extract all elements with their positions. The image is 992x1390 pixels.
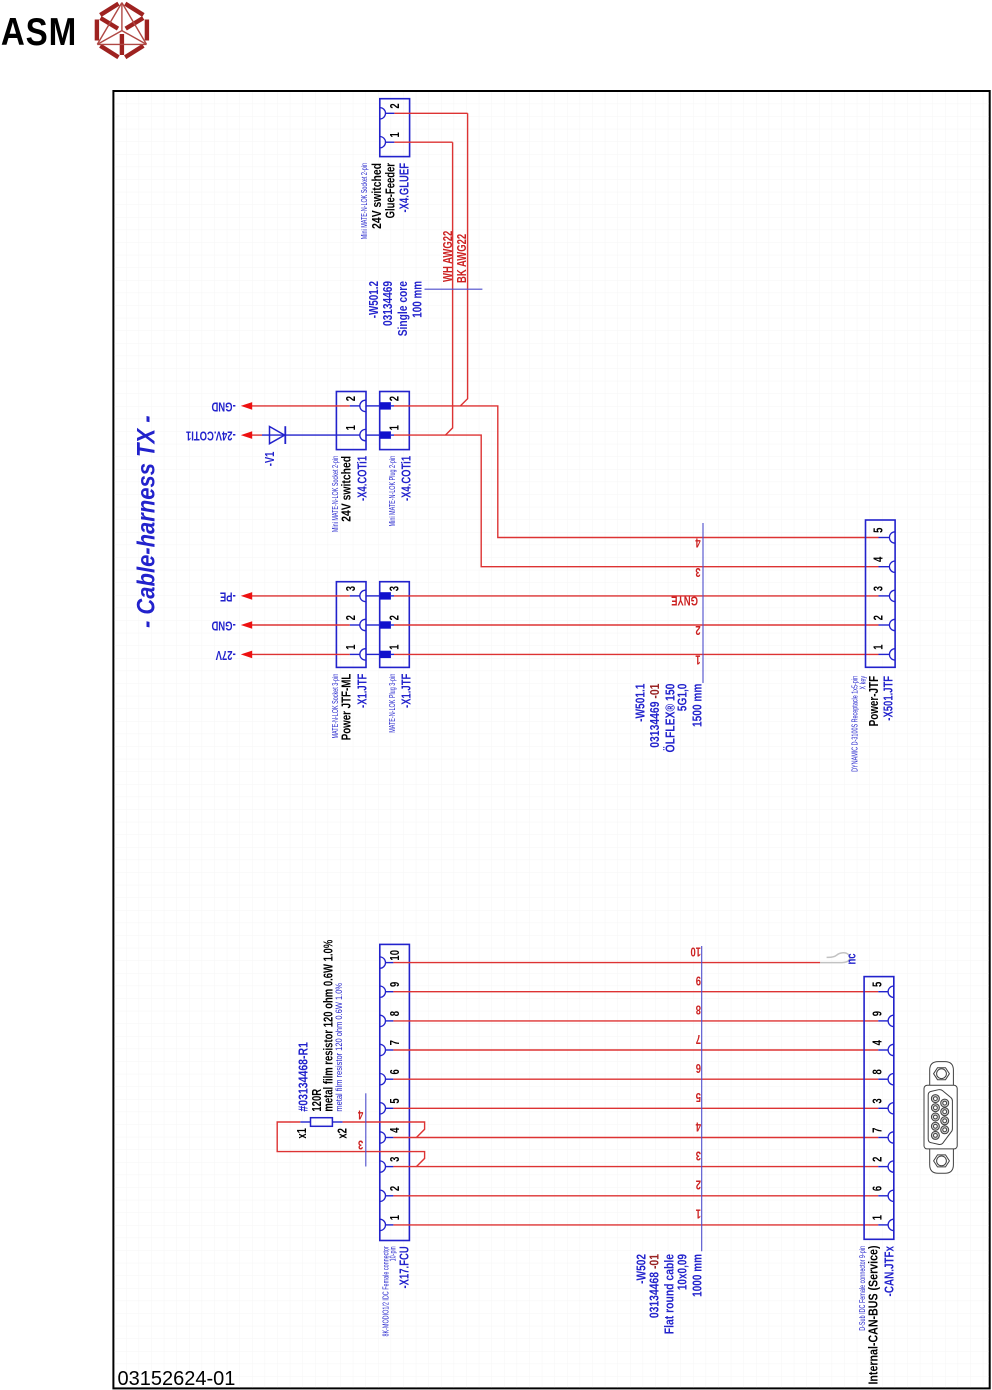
svg-text:1: 1 bbox=[345, 425, 359, 431]
X17.FCU pin 2 stub bbox=[386, 1195, 394, 1197]
link X1 socket-plug pin2 bbox=[366, 624, 381, 626]
svg-text:4: 4 bbox=[871, 1040, 885, 1046]
svg-text:3: 3 bbox=[872, 586, 886, 591]
svg-text:1: 1 bbox=[872, 644, 886, 650]
svg-text:10-pin: 10-pin bbox=[389, 1246, 397, 1261]
svg-text:24V switched: 24V switched bbox=[339, 456, 353, 522]
DB9 bottom mounting tab bbox=[930, 1148, 954, 1174]
svg-text:- Cable-harness TX -: - Cable-harness TX - bbox=[132, 415, 160, 628]
CAN.JTFx pin 3 stub bbox=[878, 1107, 888, 1109]
wire w2 X17 to CAN bbox=[393, 1195, 878, 1197]
svg-text:-CAN.JTFx: -CAN.JTFx bbox=[883, 1246, 897, 1297]
svg-text:7: 7 bbox=[696, 1031, 701, 1045]
svg-text:-X17.FCU: -X17.FCU bbox=[398, 1246, 412, 1288]
svg-text:-X4.COTi1: -X4.COTi1 bbox=[356, 455, 370, 501]
connector CAN.JTFx box bbox=[864, 977, 894, 1240]
diode V1 red lead bbox=[252, 434, 263, 436]
X17.FCU pin 1 bump bbox=[380, 1219, 386, 1230]
thin line bottom chord bbox=[97, 43, 146, 45]
svg-text:1: 1 bbox=[388, 644, 402, 650]
svg-text:-W501.2: -W501.2 bbox=[368, 281, 382, 318]
CAN.JTFx pin 9 bump bbox=[888, 1015, 894, 1026]
svg-text:8: 8 bbox=[871, 1069, 885, 1074]
svg-text:4: 4 bbox=[695, 1119, 701, 1133]
connector X4.GLUEF box bbox=[380, 99, 410, 157]
svg-text:2: 2 bbox=[389, 103, 403, 108]
wire w8 X17 to CAN bbox=[393, 1020, 878, 1022]
svg-text:5G1,0: 5G1,0 bbox=[676, 684, 690, 712]
svg-text:BK AWG22: BK AWG22 bbox=[456, 234, 470, 283]
hexagon edge left (thick) bbox=[95, 20, 99, 41]
CAN.JTFx pin 8 stub bbox=[878, 1078, 888, 1080]
svg-text:2: 2 bbox=[872, 615, 886, 620]
svg-text:7: 7 bbox=[871, 1128, 885, 1133]
connector X1.JTF plug box bbox=[380, 582, 410, 668]
X501.JTF pin 1 bump bbox=[889, 649, 895, 660]
X501.JTF pin 5 stub bbox=[879, 537, 890, 539]
link socket-plug pin2 bbox=[366, 405, 381, 407]
diode V1 cathode bar bbox=[284, 426, 286, 444]
X1.JTF plug pin 2 square bbox=[380, 621, 391, 628]
svg-text:Internal-CAN-BUS (Service): Internal-CAN-BUS (Service) bbox=[866, 1245, 881, 1384]
wire w3 X17 to CAN bbox=[393, 1166, 878, 1168]
svg-text:3: 3 bbox=[695, 564, 700, 578]
inner thick spoke lower vertical bbox=[120, 34, 124, 55]
wire GLUEF pin1 horizontal bbox=[394, 141, 452, 143]
wire COTi1 plug pin2 to X501 pin5 bbox=[394, 406, 879, 538]
X4.GLUEF pin 2 socket bump bbox=[380, 108, 386, 119]
resistor R1 left stub bbox=[300, 1121, 310, 1123]
svg-text:x2: x2 bbox=[336, 1128, 350, 1139]
DB9 top nut hexagon bbox=[934, 1068, 950, 1080]
CAN.JTFx pin 2 stub bbox=[878, 1166, 888, 1168]
svg-text:3: 3 bbox=[358, 1137, 363, 1151]
CAN.JTFx pin 8 bump bbox=[888, 1074, 894, 1085]
svg-text:DYNAMIC D-3100S Receptacle 1x5: DYNAMIC D-3100S Receptacle 1x5-pin bbox=[852, 676, 860, 772]
X1.JTF plug pin 2 stub bbox=[391, 624, 394, 626]
CAN.JTFx pin 6 stub bbox=[878, 1195, 888, 1197]
connector X4.COTi1 plug box bbox=[380, 392, 410, 450]
svg-text:MATE-N-LOK Plug 3-pin: MATE-N-LOK Plug 3-pin bbox=[389, 674, 397, 733]
X17.FCU pin 5 bump bbox=[380, 1103, 386, 1114]
X501.JTF pin 1 stub bbox=[879, 653, 890, 655]
X1.JTF plug pin 1 square bbox=[380, 651, 391, 658]
svg-text:metal film resistor 120 ohm 0.: metal film resistor 120 ohm 0.6W 1.0% bbox=[333, 983, 344, 1112]
X1.JTF plug pin 1 stub bbox=[391, 653, 394, 655]
svg-text:GNYE: GNYE bbox=[671, 593, 698, 607]
X4.GLUEF pin 1 stub bbox=[386, 141, 395, 143]
svg-text:1: 1 bbox=[389, 1214, 403, 1220]
CAN.JTFx pin 1 bump bbox=[888, 1219, 894, 1230]
X501.JTF pin 4 stub bbox=[879, 566, 890, 568]
wire GLUEF pin2 horizontal bbox=[394, 112, 467, 114]
link X1 socket-plug pin3 bbox=[366, 595, 381, 597]
DB9 pin circles bbox=[931, 1095, 948, 1140]
X1.JTF socket pin 3 stub bbox=[350, 595, 360, 597]
thin line top to lower-left vertex bbox=[97, 3, 122, 45]
svg-text:8: 8 bbox=[696, 1002, 701, 1016]
svg-text:3: 3 bbox=[696, 1148, 701, 1162]
svg-text:2: 2 bbox=[345, 396, 359, 401]
svg-text:7: 7 bbox=[389, 1040, 403, 1045]
svg-text:2: 2 bbox=[695, 623, 700, 637]
connector X4.COTi1 socket box bbox=[336, 392, 366, 450]
DB9 bottom nut hexagon bbox=[934, 1155, 950, 1167]
wire w1 X17 to CAN bbox=[393, 1224, 878, 1226]
svg-text:03152624-01: 03152624-01 bbox=[118, 1368, 236, 1390]
svg-text:-PE: -PE bbox=[220, 589, 236, 603]
resistor R1 right stub bbox=[332, 1121, 342, 1123]
svg-text:6: 6 bbox=[871, 1186, 885, 1191]
hexagon edge top-left (thick) bbox=[100, 4, 118, 15]
svg-text:nc: nc bbox=[845, 953, 859, 964]
X1.JTF plug pin 3 square bbox=[380, 592, 391, 599]
X4.GLUEF pin 1 socket bump bbox=[380, 137, 386, 148]
X17.FCU pin 3 stub bbox=[386, 1166, 394, 1168]
svg-text:#03134468-R1: #03134468-R1 bbox=[295, 1042, 310, 1112]
svg-text:x1: x1 bbox=[296, 1127, 310, 1138]
hexagon edge top-right (thick) bbox=[125, 4, 143, 15]
arrow -24V.COTi1 (COTi1 pin1) bbox=[241, 431, 252, 439]
svg-text:10: 10 bbox=[389, 950, 403, 961]
wire arrow -GND (COTi1 pin2) bbox=[252, 405, 350, 407]
svg-text:Glue-Feeder: Glue-Feeder bbox=[384, 163, 398, 219]
svg-text:WH AWG22: WH AWG22 bbox=[442, 231, 456, 282]
svg-text:2: 2 bbox=[388, 615, 402, 620]
CAN.JTFx pin 9 stub bbox=[878, 1020, 888, 1022]
X17.FCU pin 7 bump bbox=[380, 1044, 386, 1055]
X1.JTF socket pin 1 stub bbox=[350, 653, 360, 655]
svg-text:-27V: -27V bbox=[215, 647, 235, 661]
svg-text:5: 5 bbox=[389, 1098, 403, 1104]
CAN.JTFx pin 1 stub bbox=[878, 1224, 888, 1226]
svg-text:1: 1 bbox=[695, 652, 701, 666]
svg-text:4: 4 bbox=[872, 556, 886, 562]
svg-text:24V switched: 24V switched bbox=[370, 163, 384, 229]
X17.FCU pin 9 bump bbox=[380, 986, 386, 997]
X1.JTF socket pin 3 bump bbox=[360, 590, 366, 601]
svg-text:4: 4 bbox=[389, 1127, 403, 1133]
wire loop resistor x1 to wire3 feed bbox=[277, 1122, 424, 1167]
svg-text:-GND: -GND bbox=[211, 618, 235, 632]
svg-text:9: 9 bbox=[696, 973, 701, 987]
X4.GLUEF pin 2 stub bbox=[386, 112, 395, 114]
wire w9 X17 to CAN bbox=[393, 991, 878, 993]
svg-text:Mini MATE-N-LOK Plug 2-pin: Mini MATE-N-LOK Plug 2-pin bbox=[389, 456, 397, 527]
X4.COTi1 socket pin 1 bump bbox=[360, 429, 366, 440]
arrow -GND wire bbox=[252, 624, 350, 626]
CAN.JTFx pin 4 bump bbox=[888, 1044, 894, 1055]
svg-text:2: 2 bbox=[696, 1177, 701, 1191]
svg-text:1: 1 bbox=[695, 1206, 701, 1220]
svg-text:100 mm: 100 mm bbox=[411, 281, 425, 318]
CAN.JTFx pin 4 stub bbox=[878, 1049, 888, 1051]
X17.FCU pin 6 stub bbox=[386, 1078, 394, 1080]
svg-text:10x0,09: 10x0,09 bbox=[675, 1254, 690, 1291]
X4.COTi1 socket pin 2 bump bbox=[360, 400, 366, 411]
wire X1 plug pin1 to X501 pin1 bbox=[394, 653, 879, 655]
svg-text:X key: X key bbox=[859, 675, 867, 689]
thin line center to lower-right vertex bbox=[122, 31, 147, 45]
CAN.JTFx pin 5 bump bbox=[888, 986, 894, 997]
wire w5 X17 to CAN bbox=[393, 1107, 878, 1109]
svg-text:Single core: Single core bbox=[396, 281, 410, 337]
svg-text:03134469: 03134469 bbox=[381, 281, 395, 327]
svg-text:2: 2 bbox=[871, 1157, 885, 1162]
X1.JTF plug pin 3 stub bbox=[391, 595, 394, 597]
svg-text:Power-JTF: Power-JTF bbox=[868, 676, 882, 726]
inner thick spoke upper-right bbox=[126, 18, 144, 29]
svg-text:ASM: ASM bbox=[1, 9, 77, 53]
X17.FCU pin 5 stub bbox=[386, 1107, 394, 1109]
thin line center to lower-left vertex bbox=[97, 31, 122, 45]
svg-text:3: 3 bbox=[345, 586, 359, 591]
svg-text:9: 9 bbox=[389, 982, 403, 987]
CAN.JTFx pin 3 bump bbox=[888, 1103, 894, 1114]
wire COTi1 plug pin1 to X501 pin4 bbox=[394, 435, 879, 567]
svg-text:1000 mm: 1000 mm bbox=[690, 1254, 705, 1297]
svg-text:1: 1 bbox=[389, 132, 403, 138]
cable marker W501.1 line bbox=[702, 523, 704, 683]
DB9 bottom nut circle bbox=[937, 1156, 947, 1166]
svg-text:MATE-N-LOK Socket 3-pin: MATE-N-LOK Socket 3-pin bbox=[332, 674, 340, 739]
arrow -27V wire bbox=[252, 653, 350, 655]
nc pigtail bbox=[820, 953, 850, 963]
diode V1 blue lead bbox=[262, 434, 286, 436]
X4.COTi1 plug pin 2 stub bbox=[391, 405, 394, 407]
X17.FCU pin 10 stub bbox=[386, 962, 394, 964]
wire w10 (nc) bbox=[393, 962, 820, 964]
X17.FCU pin 4 stub bbox=[386, 1137, 394, 1139]
svg-text:-X4.COTi1: -X4.COTi1 bbox=[400, 455, 414, 501]
svg-text:Power JTF-ML: Power JTF-ML bbox=[340, 674, 354, 741]
svg-text:1: 1 bbox=[345, 644, 359, 650]
hexagon edge right (thick) bbox=[145, 20, 149, 41]
connector X17.FCU box bbox=[380, 944, 410, 1240]
svg-text:4: 4 bbox=[695, 535, 701, 549]
CAN.JTFx pin 2 bump bbox=[888, 1161, 894, 1172]
CAN.JTFx pin 7 stub bbox=[878, 1137, 888, 1139]
svg-text:Mini MATE-N-LOK Socket 2-pin: Mini MATE-N-LOK Socket 2-pin bbox=[361, 163, 369, 239]
CAN.JTFx pin 7 bump bbox=[888, 1132, 894, 1143]
DB9 top nut circle bbox=[937, 1069, 947, 1079]
wire feed resistor x2 to wire4 bbox=[343, 1122, 425, 1138]
svg-text:6: 6 bbox=[696, 1061, 701, 1075]
X4.COTi1 plug pin 1 square bbox=[380, 431, 391, 438]
X17.FCU pin 2 bump bbox=[380, 1190, 386, 1201]
thin line top to center bbox=[121, 3, 123, 31]
wire GLUEF pin2 vertical drop bbox=[460, 113, 467, 406]
D-Sub 9 connector icon bbox=[924, 1062, 957, 1174]
X17.FCU pin 10 bump bbox=[380, 957, 386, 968]
resistor R1 body bbox=[311, 1118, 333, 1127]
X17.FCU pin 8 bump bbox=[380, 1015, 386, 1026]
svg-text:-GND: -GND bbox=[211, 399, 235, 413]
svg-text:5: 5 bbox=[871, 981, 885, 987]
arrow -PE wire bbox=[252, 595, 350, 597]
X501.JTF pin 4 bump bbox=[889, 561, 895, 572]
svg-text:2: 2 bbox=[389, 1186, 403, 1191]
svg-text:-X4.GLUEF: -X4.GLUEF bbox=[398, 163, 412, 213]
svg-text:3: 3 bbox=[389, 1157, 403, 1162]
CAN.JTFx pin 5 stub bbox=[878, 991, 888, 993]
svg-text:-V1: -V1 bbox=[264, 451, 278, 466]
thin line top to lower-right vertex bbox=[122, 3, 147, 45]
X501.JTF pin 3 stub bbox=[879, 595, 890, 597]
X1.JTF socket pin 2 stub bbox=[350, 624, 360, 626]
inner thick spoke upper-left bbox=[101, 18, 119, 29]
X501.JTF pin 2 bump bbox=[889, 619, 895, 630]
X4.COTi1 socket pin 1 stub (diode side) bbox=[286, 434, 360, 436]
connector X1.JTF socket box bbox=[336, 582, 366, 668]
svg-text:-X501.JTF: -X501.JTF bbox=[882, 676, 896, 721]
X4.COTi1 socket pin 2 stub bbox=[350, 405, 360, 407]
wire GLUEF pin1 vertical drop bbox=[445, 142, 452, 435]
hexagon edge bottom-left (thick) bbox=[100, 46, 118, 57]
link socket-plug pin1 bbox=[366, 434, 381, 436]
connector X501.JTF box bbox=[866, 520, 896, 667]
X17.FCU pin 6 bump bbox=[380, 1074, 386, 1085]
X17.FCU pin 9 stub bbox=[386, 991, 394, 993]
X501.JTF pin 2 stub bbox=[879, 624, 890, 626]
svg-text:1: 1 bbox=[388, 425, 402, 431]
mini cable marker (cores 4/3) bbox=[365, 1093, 367, 1166]
X17.FCU pin 3 bump bbox=[380, 1161, 386, 1172]
hexagon edge bottom-right (thick) bbox=[125, 46, 143, 57]
X17.FCU pin 7 stub bbox=[386, 1049, 394, 1051]
svg-text:10: 10 bbox=[690, 944, 701, 958]
svg-text:1: 1 bbox=[871, 1214, 885, 1220]
cable marker W502 line bbox=[701, 946, 703, 1251]
svg-text:4: 4 bbox=[357, 1107, 363, 1121]
CAN.JTFx pin 6 bump bbox=[888, 1190, 894, 1201]
X1.JTF socket pin 2 bump bbox=[360, 619, 366, 630]
X4.COTi1 plug pin 2 square bbox=[380, 402, 391, 409]
svg-text:2: 2 bbox=[345, 615, 359, 620]
svg-text:2: 2 bbox=[388, 396, 402, 401]
wire w4 X17 to CAN bbox=[393, 1137, 878, 1139]
DB9 D-shell outline bbox=[928, 1090, 952, 1145]
cable marker W501.2 line bbox=[425, 288, 483, 290]
X17.FCU pin 1 stub bbox=[386, 1224, 394, 1226]
svg-text:03134468 -01: 03134468 -01 bbox=[647, 1254, 661, 1319]
wire w6 X17 to CAN bbox=[393, 1078, 878, 1080]
svg-text:8: 8 bbox=[389, 1011, 403, 1016]
X501.JTF pin 5 bump bbox=[889, 532, 895, 543]
wire X1 plug pin3 to X501 pin3 (GNYE) bbox=[394, 595, 879, 597]
link X1 socket-plug pin1 bbox=[366, 653, 381, 655]
svg-text:1500 mm: 1500 mm bbox=[690, 684, 704, 727]
svg-text:5: 5 bbox=[695, 1090, 701, 1104]
svg-text:5: 5 bbox=[872, 527, 886, 533]
wire w7 X17 to CAN bbox=[393, 1049, 878, 1051]
svg-text:3: 3 bbox=[388, 586, 402, 591]
ASM logo hexagon icon bbox=[97, 3, 147, 58]
svg-text:03134469 -01: 03134469 -01 bbox=[648, 683, 662, 748]
svg-text:-W501.1: -W501.1 bbox=[633, 683, 647, 722]
X1.JTF socket pin 1 bump bbox=[360, 649, 366, 660]
svg-text:-24V.COTI1: -24V.COTI1 bbox=[185, 428, 235, 442]
svg-text:-X1.JTF: -X1.JTF bbox=[400, 674, 414, 708]
X4.COTi1 plug pin 1 stub bbox=[391, 434, 394, 436]
wire X1 plug pin2 to X501 pin2 bbox=[394, 624, 879, 626]
diode V1 triangle bbox=[270, 427, 285, 444]
svg-text:-X1.JTF: -X1.JTF bbox=[356, 674, 370, 708]
DB9 body bbox=[924, 1085, 957, 1149]
X17.FCU pin 4 bump bbox=[380, 1132, 386, 1143]
X501.JTF pin 3 bump bbox=[889, 590, 895, 601]
DB9 top mounting tab bbox=[930, 1062, 954, 1087]
X17.FCU pin 8 stub bbox=[386, 1020, 394, 1022]
svg-text:6: 6 bbox=[389, 1069, 403, 1074]
svg-text:9: 9 bbox=[871, 1011, 885, 1016]
svg-text:3: 3 bbox=[871, 1098, 885, 1103]
